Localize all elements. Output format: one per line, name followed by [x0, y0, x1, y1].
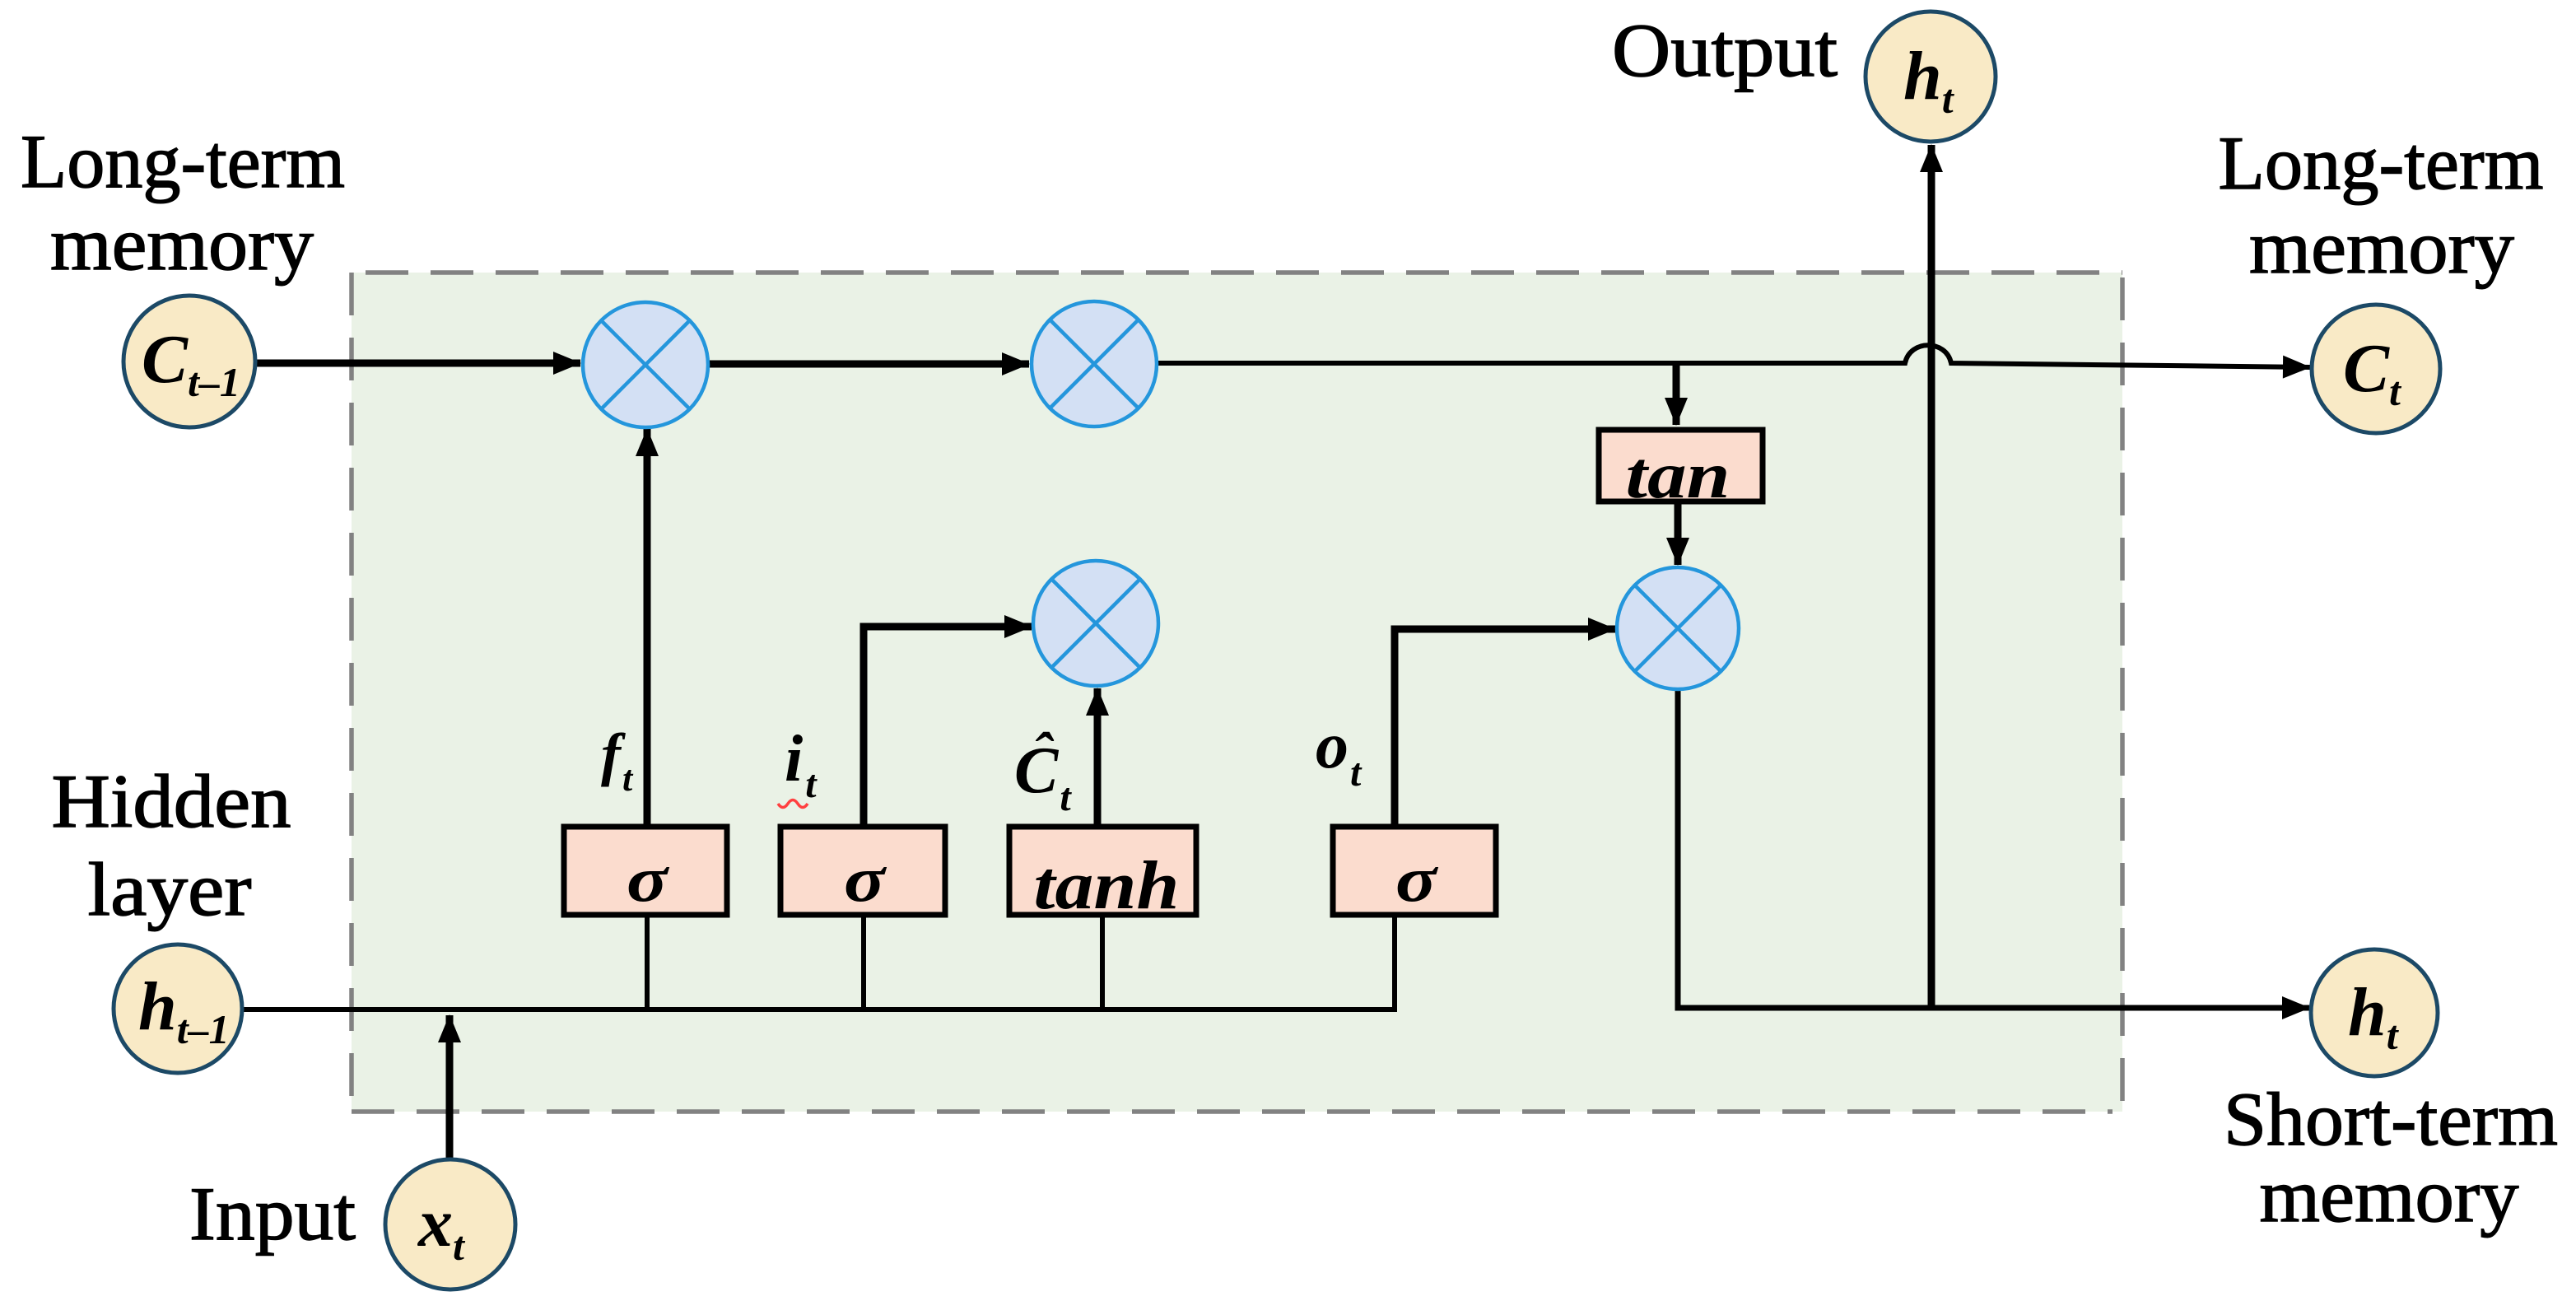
- LSTM cell dashed box: [352, 273, 2122, 1112]
- wire: Chat arrow tanh to M3: [1094, 688, 1102, 827]
- wire: M4 output down and right to ht: [1678, 688, 2309, 1008]
- wire: M1 to M2: [708, 361, 1029, 368]
- svg-text:σ: σ: [844, 843, 887, 915]
- label long-term memory left: [21, 119, 345, 286]
- svg-text:tanh: tanh: [1034, 847, 1180, 924]
- label long-term memory right: [2219, 121, 2544, 289]
- wire: xt arrow up into h line: [446, 1015, 454, 1160]
- label hidden layer: [52, 759, 291, 931]
- svg-text:memory: memory: [2260, 1154, 2519, 1238]
- wire: f gate arrow sigma1 to M1: [644, 429, 651, 827]
- label ft: [601, 721, 634, 799]
- node xt input: [385, 1159, 515, 1289]
- wire: h input line from ht-1: [240, 1007, 1397, 1012]
- wire: f gate vertical below sigma1: [645, 914, 650, 1012]
- svg-text:σ: σ: [1395, 843, 1438, 915]
- svg-text:Output: Output: [1612, 8, 1838, 92]
- gate box tanh: [1009, 827, 1196, 924]
- wire: i gate elbow sigma2 to M3: [864, 627, 1032, 827]
- gate box sigma3: [1333, 827, 1496, 915]
- node ht bottom right: [2311, 949, 2438, 1076]
- wire C-line: Ct-1 to M1: [255, 360, 580, 367]
- node ht output top: [1866, 12, 1996, 142]
- wire: i gate vertical below sigma2: [861, 914, 866, 1012]
- cell border left dashed: [349, 273, 354, 1107]
- svg-text:σ: σ: [627, 843, 669, 915]
- wire: branch down into tan box: [1673, 366, 1680, 425]
- gate box tan: [1599, 430, 1763, 512]
- wire: o gate elbow sigma3 to M4: [1395, 629, 1615, 827]
- label ot: [1316, 710, 1363, 795]
- svg-text:Long-term: Long-term: [2219, 121, 2544, 205]
- op multiply M2: [1032, 301, 1157, 427]
- wire: tan box to M4: [1675, 504, 1682, 565]
- cell border right dashed: [2120, 277, 2125, 1112]
- svg-text:Hidden: Hidden: [52, 759, 291, 843]
- gate box sigma2: [780, 827, 945, 915]
- svg-text:Input: Input: [189, 1172, 356, 1256]
- node Ct-1: [123, 296, 255, 427]
- svg-text:ˆ: ˆ: [1032, 722, 1055, 786]
- label it: [778, 723, 818, 808]
- wire: Chat vertical below tanh: [1100, 914, 1105, 1012]
- svg-text:Short-term: Short-term: [2224, 1077, 2558, 1161]
- wire: M2 to Ct with hop over ht vertical: [1157, 345, 2310, 367]
- svg-text:memory: memory: [50, 202, 314, 286]
- label Chat-t: [1014, 722, 1072, 819]
- node Ct right: [2312, 305, 2440, 433]
- op multiply M3: [1033, 561, 1158, 686]
- cell border bottom dashed: [352, 1109, 2113, 1114]
- gate box sigma1: [564, 827, 727, 915]
- op multiply M4: [1617, 567, 1739, 689]
- svg-text:layer: layer: [88, 847, 252, 931]
- wire: ht vertical up to output ht: [1928, 145, 1935, 1008]
- op multiply M1: [583, 302, 708, 427]
- wire: o gate vertical below sigma3: [1392, 914, 1397, 1012]
- node ht-1: [114, 944, 242, 1073]
- svg-text:memory: memory: [2249, 205, 2514, 289]
- cell border top dashed: [366, 270, 2122, 275]
- svg-text:tan: tan: [1626, 440, 1731, 512]
- svg-text:Long-term: Long-term: [21, 119, 345, 203]
- label short-term memory: [2224, 1077, 2558, 1238]
